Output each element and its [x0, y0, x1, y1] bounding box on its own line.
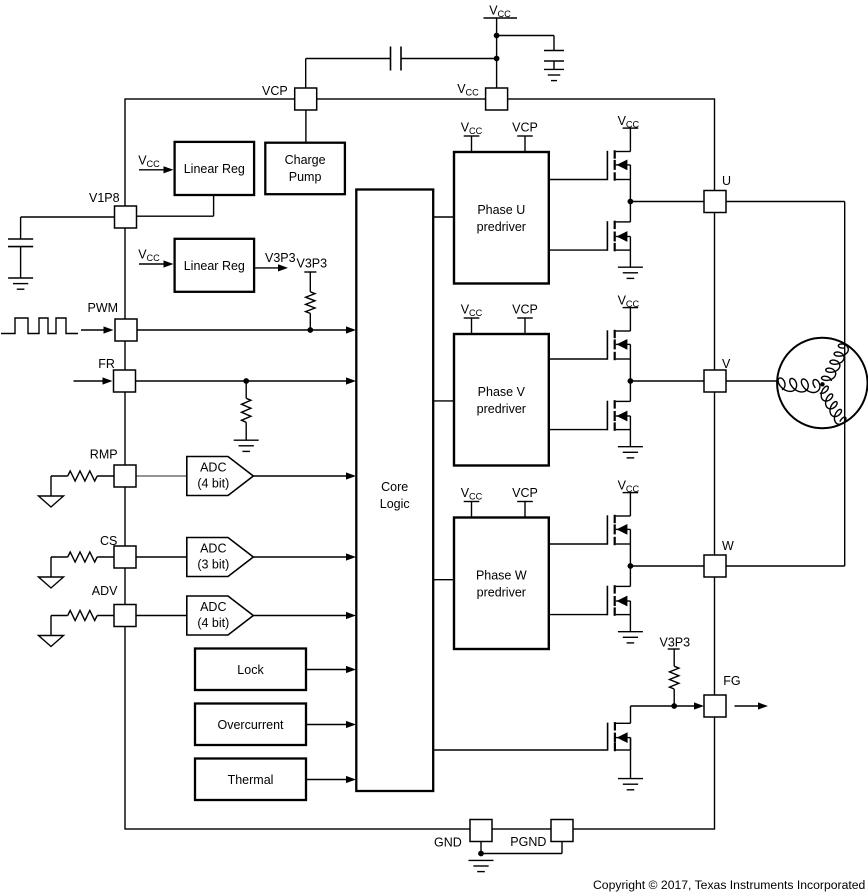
svg-text:VCC: VCC	[461, 121, 483, 137]
transistor high-side NMOS	[549, 515, 631, 545]
node junction to charge-pump cap	[494, 56, 500, 62]
svg-text:VCC: VCC	[457, 82, 479, 98]
resistor FR pull-down	[242, 381, 251, 440]
svg-text:Overcurrent: Overcurrent	[218, 718, 285, 732]
wire FR input arrow	[74, 377, 113, 384]
PWM input waveform symbol	[1, 318, 78, 334]
wire CS pin to ADC	[136, 556, 187, 558]
wire phase node to low-side drain	[629, 566, 631, 586]
power stub VCP (Phase W predriver)	[512, 486, 538, 518]
ground (triangle, RMP)	[39, 496, 64, 507]
svg-text:Copyright © 2017, Texas Instru: Copyright © 2017, Texas Instruments Inco…	[593, 878, 865, 892]
svg-text:ADC: ADC	[200, 600, 226, 614]
block Phase V predriver	[454, 334, 549, 466]
svg-text:Linear Reg: Linear Reg	[184, 162, 245, 176]
wire Vcc rail down to VCC pin	[496, 18, 498, 88]
svg-text:RMP: RMP	[90, 448, 118, 462]
ground (FG transistor)	[618, 779, 643, 790]
svg-text:V3P3: V3P3	[265, 251, 296, 265]
wire FG output arrow (external)	[735, 702, 769, 709]
pin PGND	[551, 820, 573, 842]
ground (triangle, ADV)	[39, 636, 64, 647]
Vcc supply bar (566-arm)	[618, 479, 640, 495]
wire V1P8 pin to external cap	[21, 217, 115, 239]
ground	[618, 267, 643, 278]
pin VCC	[486, 88, 508, 110]
svg-text:V3P3: V3P3	[660, 636, 691, 650]
wire high-side source to phase node	[629, 180, 631, 202]
transistor low-side NMOS	[549, 400, 631, 431]
wire W pin to motor bus	[726, 565, 845, 567]
label Vcc pin	[457, 82, 479, 98]
wire Vcc to high-side drain	[629, 493, 631, 516]
svg-text:Logic: Logic	[380, 497, 410, 511]
transistor low-side NMOS	[549, 585, 631, 616]
wire Core Logic to Phase W predriver	[433, 579, 454, 581]
power stub Vcc (Phase U predriver)	[461, 121, 483, 153]
wire Vcc to high-side drain	[629, 128, 631, 151]
label PWM pin	[88, 301, 119, 315]
svg-text:(4 bit): (4 bit)	[197, 616, 229, 630]
wire Vcc input arrow to Linear Reg 2	[138, 248, 173, 268]
block ADC (3 bit) CS	[187, 538, 254, 577]
resistor V3P3 pull-up	[306, 272, 315, 330]
label V1P8 pin	[89, 191, 120, 205]
wire low-side source to ground	[629, 615, 631, 632]
node phase junction	[628, 378, 634, 384]
node PWM / pull-up junction	[307, 327, 313, 333]
svg-text:Lock: Lock	[237, 663, 264, 677]
block Overcurrent	[195, 704, 306, 746]
svg-text:Pump: Pump	[289, 170, 322, 184]
label copyright	[593, 878, 865, 892]
wire PWM to Core Logic	[137, 326, 356, 333]
resistor RMP external	[51, 471, 114, 496]
svg-text:Core: Core	[381, 480, 408, 494]
svg-text:VCC: VCC	[618, 114, 640, 130]
svg-text:predriver: predriver	[477, 586, 526, 600]
svg-text:VCP: VCP	[262, 84, 288, 98]
wire GND pin to ground	[480, 842, 482, 854]
wire ADV pin to ADC	[136, 615, 187, 617]
wire Thermal to Core Logic	[306, 776, 356, 783]
block Thermal	[195, 759, 306, 801]
transistor high-side NMOS	[549, 150, 631, 180]
ground (V1P8 cap)	[8, 278, 33, 289]
wire V3P3 output arrow of Linear Reg 2	[254, 251, 296, 272]
Vcc supply bar (201-arm)	[618, 114, 640, 130]
svg-text:VCC: VCC	[618, 294, 640, 310]
svg-text:VCP: VCP	[512, 486, 538, 500]
wire to bypass capacitor	[497, 36, 554, 51]
power stub VCP (Phase U predriver)	[512, 121, 538, 153]
label W pin	[722, 539, 734, 553]
block ADC (4 bit) RMP	[187, 457, 254, 496]
wire U phase node to U pin	[630, 201, 704, 203]
motor (3-phase BLDC symbol)	[777, 338, 867, 428]
half-bridge U arm	[549, 114, 643, 278]
label RMP pin	[90, 448, 118, 462]
pin GND	[470, 820, 492, 842]
label ADV pin	[92, 584, 118, 598]
block Linear Reg 1	[175, 142, 255, 195]
wire FG node to FG transistor drain	[631, 706, 675, 723]
power rail V3P3 (PWM pull-up)	[297, 257, 328, 273]
svg-text:Thermal: Thermal	[228, 773, 274, 787]
wire low-side source to ground	[629, 430, 631, 447]
svg-text:VCP: VCP	[512, 303, 538, 317]
power stub Vcc (Phase W predriver)	[461, 486, 483, 518]
pin V	[704, 370, 726, 392]
wire FR to Core Logic	[136, 377, 357, 384]
svg-text:Phase W: Phase W	[476, 569, 527, 583]
transistor low-side NMOS	[549, 221, 631, 252]
pin VCP	[295, 88, 317, 110]
label VCP pin	[262, 84, 288, 98]
half-bridge V arm	[549, 294, 643, 458]
svg-text:V: V	[722, 357, 731, 371]
svg-text:(4 bit): (4 bit)	[197, 477, 229, 491]
wire low-side source to ground	[629, 250, 631, 267]
svg-text:Charge: Charge	[285, 153, 326, 167]
wire phase node to low-side drain	[629, 381, 631, 401]
pin W	[704, 555, 726, 577]
wire Overcurrent to Core Logic	[306, 721, 356, 728]
ground (triangle, CS)	[39, 577, 64, 588]
power rail Vcc (top)	[484, 4, 518, 20]
label PGND pin	[510, 835, 546, 849]
pin V1P8	[115, 206, 137, 228]
label FR pin	[98, 357, 115, 371]
transistor FG open-drain NMOS	[433, 722, 630, 751]
wire Linear Reg 1 to V1P8 pin	[137, 195, 214, 216]
svg-text:VCP: VCP	[512, 121, 538, 135]
pin U	[704, 191, 726, 213]
svg-text:predriver: predriver	[477, 220, 526, 234]
label FG pin	[723, 674, 740, 688]
wire PGND pin to ground	[481, 842, 562, 854]
pin CS	[114, 546, 136, 568]
block ADC (4 bit) ADV	[187, 596, 254, 635]
node phase junction	[628, 563, 634, 569]
svg-text:U: U	[722, 174, 731, 188]
wire Lock to Core Logic	[306, 666, 356, 673]
wire FG node to FG pin arrow	[674, 702, 704, 709]
svg-text:VCC: VCC	[138, 248, 160, 264]
wire Core Logic to Phase U predriver	[433, 216, 454, 218]
node FR / pull-down junction	[243, 378, 249, 384]
svg-text:ADV: ADV	[92, 584, 118, 598]
block Phase W predriver	[454, 518, 549, 650]
svg-text:VCC: VCC	[618, 479, 640, 495]
svg-text:(3 bit): (3 bit)	[197, 558, 229, 572]
svg-text:V1P8: V1P8	[89, 191, 120, 205]
pin RMP	[114, 465, 136, 487]
label V pin	[722, 357, 731, 371]
wire V phase node to V pin	[630, 380, 704, 382]
ground (bypass cap)	[544, 69, 564, 80]
svg-text:FG: FG	[723, 674, 740, 688]
power stub VCP (Phase V predriver)	[512, 303, 538, 335]
wire ADC CS to Core Logic	[253, 553, 356, 560]
wire Vcc input arrow to Linear Reg 1	[138, 153, 173, 173]
Vcc supply bar (381-arm)	[618, 294, 640, 310]
block Charge Pump	[265, 143, 345, 195]
svg-text:Phase U: Phase U	[477, 203, 525, 217]
power stub Vcc (Phase V predriver)	[461, 303, 483, 335]
ground	[618, 447, 643, 458]
capacitor flying C (VCP)	[391, 47, 402, 71]
wire high-side source to phase node	[629, 359, 631, 381]
block Core Logic	[356, 190, 433, 792]
svg-text:VCC: VCC	[461, 303, 483, 319]
resistor ADV external	[51, 611, 114, 636]
svg-text:Phase V: Phase V	[478, 385, 526, 399]
pin ADV	[114, 605, 136, 627]
pin FR	[114, 370, 136, 392]
wire RMP pin to ADC (gray)	[136, 475, 187, 477]
wire Vcc to flying capacitor	[401, 58, 497, 60]
svg-text:VCC: VCC	[138, 153, 160, 169]
wire chip boundary box	[125, 99, 715, 829]
node FG junction	[671, 703, 677, 709]
svg-text:PGND: PGND	[510, 835, 546, 849]
svg-text:V3P3: V3P3	[297, 257, 328, 271]
svg-text:CS: CS	[100, 534, 117, 548]
svg-text:predriver: predriver	[477, 402, 526, 416]
label CS pin	[100, 534, 117, 548]
ground	[618, 632, 643, 643]
wire Core Logic to Phase V predriver	[433, 400, 454, 402]
block Linear Reg 2	[175, 239, 255, 292]
svg-text:FR: FR	[98, 357, 115, 371]
wire high-side source to phase node	[629, 544, 631, 566]
svg-text:PWM: PWM	[88, 301, 119, 315]
wire V pin to motor	[727, 380, 779, 382]
wire ADC RMP to Core Logic	[253, 472, 356, 479]
wire Charge Pump to VCP pin	[305, 110, 307, 143]
label U pin	[722, 174, 731, 188]
wire flying cap to VCP pin	[306, 59, 391, 89]
transistor high-side NMOS	[549, 330, 631, 360]
power rail V3P3 (FG pull-up)	[660, 636, 691, 650]
pin FG	[704, 695, 726, 717]
svg-text:VCC: VCC	[489, 4, 511, 20]
resistor FG pull-up	[670, 649, 679, 706]
node junction to bypass cap	[494, 33, 500, 39]
wire U pin to motor bus	[726, 202, 845, 567]
capacitor bypass C (Vcc to gnd)	[544, 51, 564, 70]
wire PWM input arrow	[81, 326, 114, 333]
wire Vcc to high-side drain	[629, 308, 631, 331]
wire ADC ADV to Core Logic	[253, 612, 356, 619]
block Phase U predriver	[454, 152, 549, 284]
svg-text:GND: GND	[434, 836, 462, 850]
svg-text:W: W	[722, 539, 734, 553]
wire W phase node to W pin	[630, 565, 704, 567]
node phase junction	[628, 199, 634, 205]
ground (FR pull-down)	[234, 440, 259, 451]
label GND pin	[434, 836, 462, 850]
ground (GND/PGND)	[469, 860, 494, 871]
svg-text:Linear Reg: Linear Reg	[184, 259, 245, 273]
capacitor V1P8 bypass	[8, 239, 33, 278]
svg-text:ADC: ADC	[200, 542, 226, 556]
resistor CS external	[51, 552, 114, 577]
pin PWM	[115, 319, 137, 341]
node GND junction	[478, 851, 484, 857]
half-bridge W arm	[549, 479, 643, 643]
svg-text:VCC: VCC	[461, 486, 483, 502]
wire phase node to low-side drain	[629, 202, 631, 222]
svg-text:ADC: ADC	[200, 461, 226, 475]
block Lock	[195, 649, 306, 691]
wire FG transistor source to ground	[630, 738, 632, 779]
